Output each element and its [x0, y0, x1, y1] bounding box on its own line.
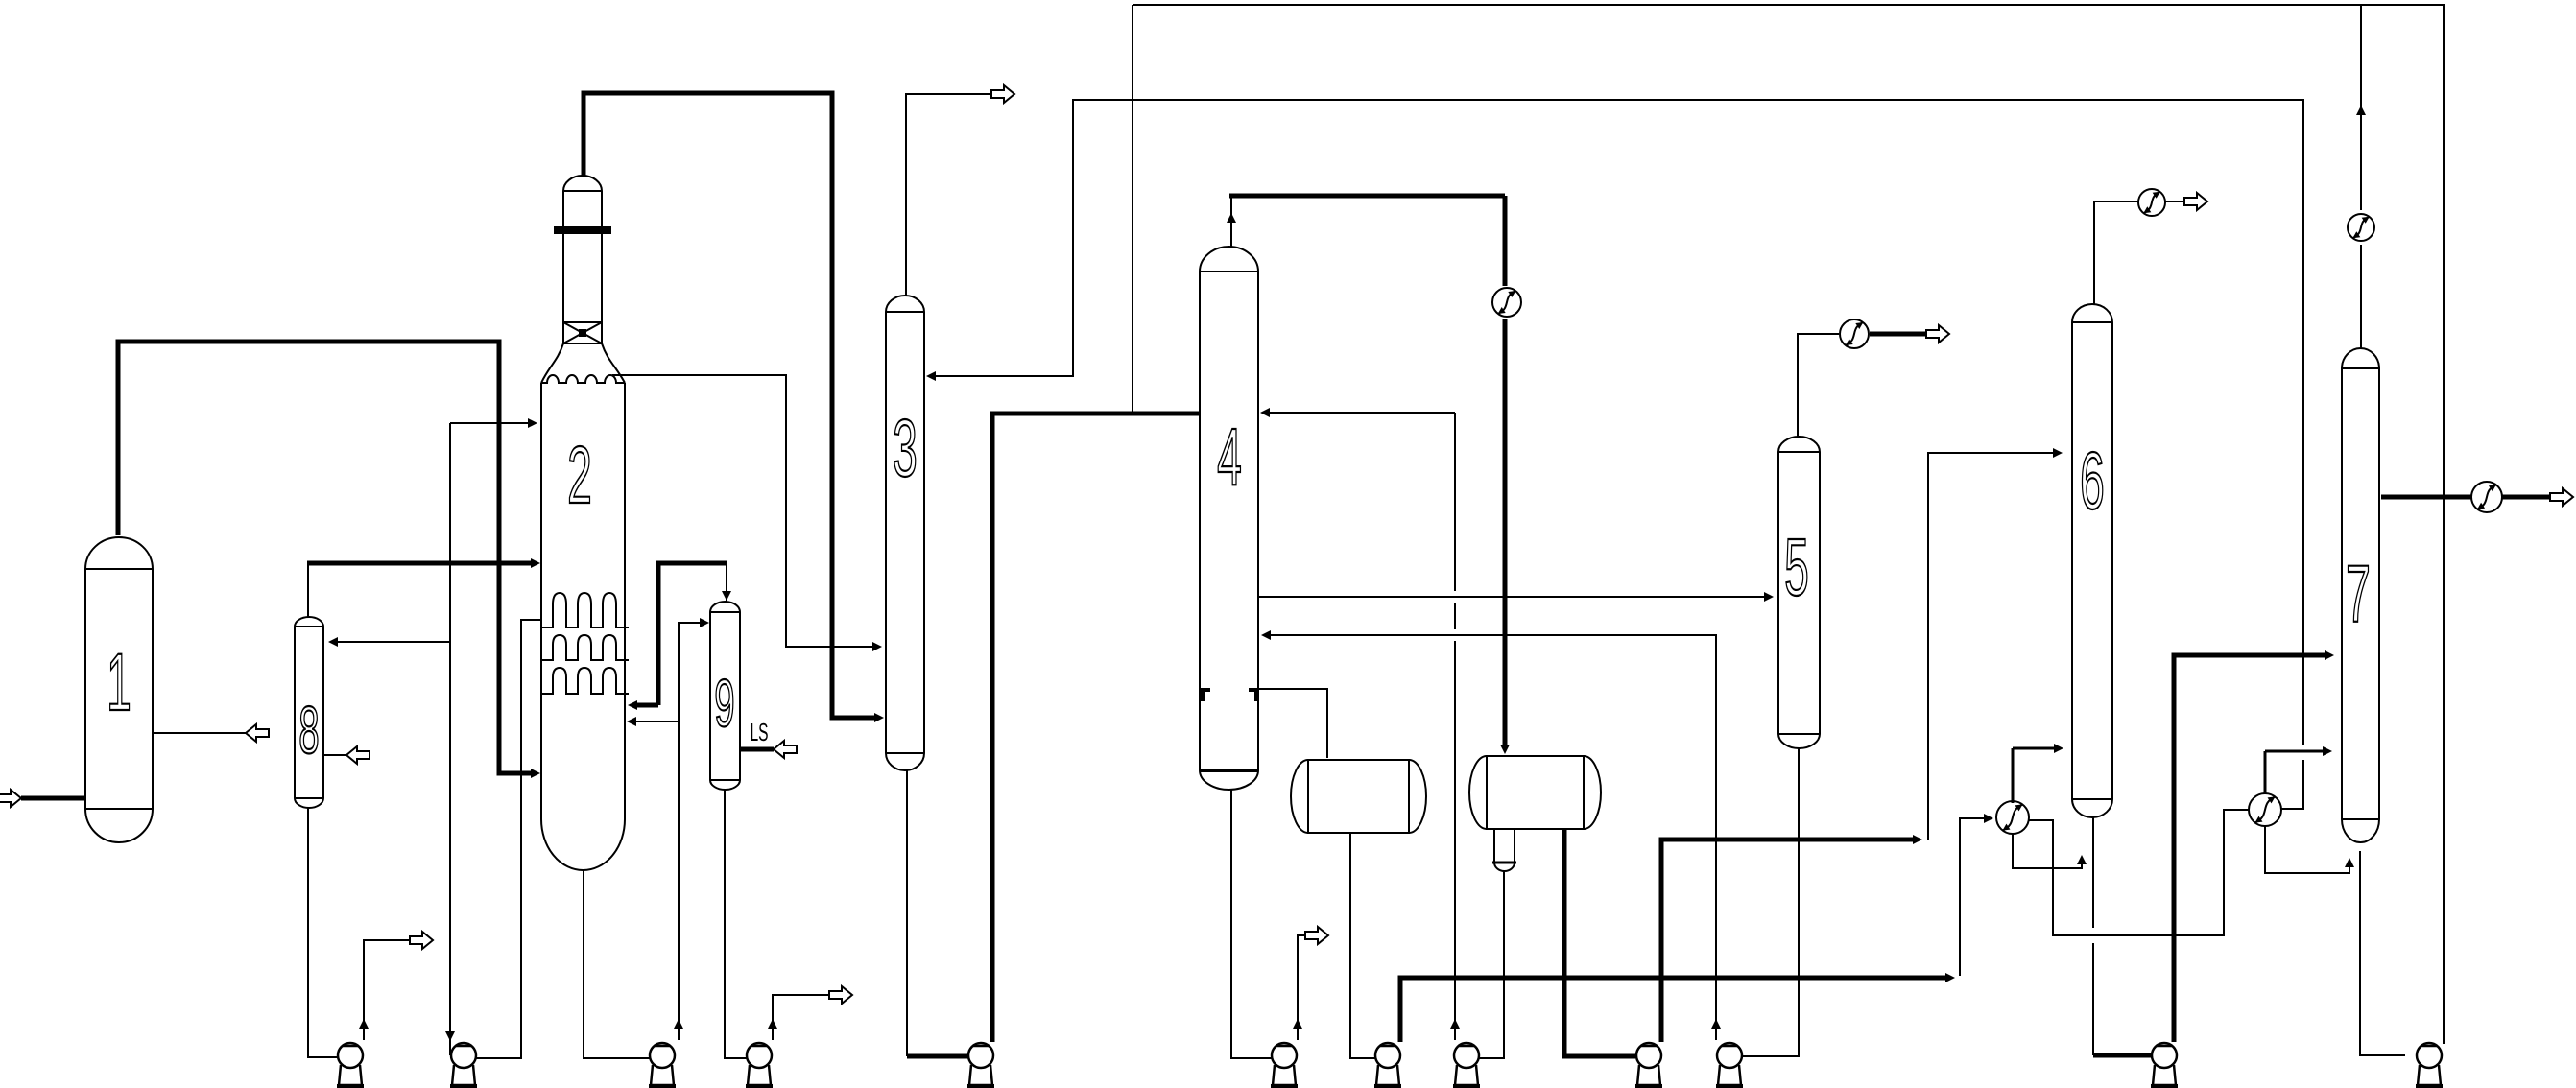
wire vessel 1 side outlet [152, 732, 246, 734]
vessel 2 internal coils [541, 593, 629, 627]
wire pump P8 discharge to vessel 4 right inlet [1267, 412, 1455, 414]
pump P11 [2152, 1043, 2177, 1068]
pump P3 [650, 1043, 675, 1068]
vessel 8 side inlet stub [323, 754, 346, 756]
vessel 5 column [1778, 437, 1820, 748]
wire reboiler E7 bottom return [2265, 825, 2349, 873]
feed inlet hollow arrow [0, 790, 21, 807]
wire vessel 3 vent to export [906, 94, 993, 296]
vessel 7 column [2342, 348, 2379, 842]
vessel 9 drum [710, 602, 740, 790]
vessel 4 chimney tray brackets [1203, 690, 1210, 701]
wire pump P10 discharge to vessel 4 inlet [1268, 635, 1716, 1040]
svg-text:3: 3 [893, 405, 918, 494]
wire vessel 2 sidedraw down to pump P2 with branch to vessel 8 [449, 423, 451, 1055]
svg-text:8: 8 [298, 693, 319, 768]
wire vessel 4 chimney tray draw to drum D1 [1258, 689, 1327, 758]
svg-text:4: 4 [1217, 414, 1242, 503]
wire vessel 5 bottoms to pump P10 [1743, 748, 1799, 1056]
wire vessel 8 bottoms to pump P1 [308, 808, 339, 1057]
svg-text:5: 5 [1784, 524, 1809, 613]
wire drum D2 bottoms to pump P9 [1564, 829, 1635, 1056]
wire vessel 3 bottoms to pump P5 [906, 770, 908, 1056]
wire vessel 2 right side to vessel 3 upper inlet [612, 375, 874, 647]
pump P12 [2417, 1043, 2442, 1068]
condenser E1 on vessel 4 overhead [1492, 288, 1521, 317]
condenser E2 on vessel 5 overhead [1840, 319, 1869, 348]
svg-text:1: 1 [107, 639, 131, 728]
pump P8 [1454, 1043, 1479, 1068]
vessel 2 mixer box [563, 322, 602, 343]
wire vessel 7 overhead to condenser E4 to top header [2360, 245, 2362, 348]
wire vessel 4 overhead to condenser E1 to drum D2 [1229, 194, 1505, 199]
pump P9 [1636, 1043, 1661, 1068]
wire pump P7 discharge to reboiler E6 feed [1400, 978, 1947, 1042]
wire reboiler E6 vapor return to vessel 6 [2012, 748, 2015, 803]
wire vessel 9 steam stub LS [740, 747, 774, 752]
svg-text:LS: LS [750, 719, 768, 746]
wire drum D1 bottoms to pump P7 [1350, 833, 1376, 1058]
wire vessel 2 overhead to vessel 3 feed [584, 93, 876, 718]
reboiler E7 [2249, 793, 2281, 826]
wire vessel 4 overhead riser [1230, 196, 1232, 247]
wire vessel 7 side outlet through cooler E5 to export [2381, 495, 2471, 500]
wire E7 reboiler return to vessel 3 via top header [2280, 760, 2303, 809]
wire pump P9 discharge to vessel 6 feed [1661, 840, 1915, 1042]
wire reboiler E6 outlet to reboiler E7 inlet [2028, 810, 2250, 935]
pump P10 [1717, 1043, 1742, 1068]
wire vessel 4 sidedraw to vessel 5 feed [1258, 596, 1766, 598]
condenser E3 on vessel 6 overhead [2138, 189, 2165, 216]
wire vessel 6 overhead to condenser E3 to export [2094, 201, 2138, 304]
pump P2 [451, 1043, 476, 1068]
vessel 2 upper neck and dome [563, 176, 602, 226]
vessel 3 column [886, 296, 924, 770]
svg-text:7: 7 [2346, 551, 2371, 640]
LS hollow arrow [774, 741, 797, 758]
vessel 8 side hollow arrow [346, 746, 370, 764]
cooler E5 on vessel 7 side stream [2471, 482, 2502, 512]
condenser E4 on vessel 7 overhead [2348, 214, 2374, 241]
svg-text:2: 2 [567, 432, 592, 521]
wire reboiler E7 vapor return to vessel 7 [2264, 751, 2267, 794]
svg-text:9: 9 [714, 666, 734, 741]
wire vessel 7 recycle junction to vessel 4 feed line [1132, 5, 1133, 412]
wire pump P11 discharge to vessel 7 feed [2174, 655, 2326, 1042]
vessel 2 flange [554, 226, 611, 234]
pump P6 [1272, 1043, 1297, 1068]
wire vessel 9 bottoms to pump P4 [725, 790, 748, 1058]
vessel 2 neck [562, 234, 564, 322]
wire top header from pump P12 discharge [1133, 5, 2444, 1044]
wire vessel 6 bottoms to pump P11 [2092, 817, 2094, 928]
wire feed to vessel 1 [21, 796, 86, 801]
wire pump P1 discharge to export [364, 940, 412, 1040]
pump P4 [747, 1043, 772, 1068]
vessel 4 bottom tray line [1200, 769, 1258, 772]
vessel 1 side outlet hollow arrow [246, 724, 269, 742]
wire pump P5 discharge to vessel 4 feed [992, 414, 1200, 1042]
wire pump P6 discharge to export [1298, 935, 1307, 1040]
vessel 6 column [2072, 304, 2112, 817]
reflux drum D1 [1308, 760, 1409, 833]
wire reboiler E6 bottom return [2013, 833, 2082, 868]
vessel 8 drum [295, 617, 323, 808]
reboiler E6 [1996, 801, 2029, 834]
pump P7 [1375, 1043, 1400, 1068]
pump P5 [968, 1043, 993, 1068]
wire pump P2 discharge to vessel 2 coils [476, 620, 541, 1058]
wire vessel 2 to vessel 9 top [658, 563, 727, 705]
wire vessel 7 bottoms to pump P12 [2360, 851, 2405, 1055]
wire drum D2 boot to pump P8 [1479, 871, 1504, 1058]
wire pump P3 discharge to vessel 9 and vessel 2 reflux [679, 623, 702, 1040]
wire vessel 8 overhead to vessel 2 [307, 563, 309, 617]
svg-text:6: 6 [2080, 438, 2105, 527]
reflux drum D2 with boot [1487, 756, 1584, 829]
wire vessel 4 bottoms to pump P6 [1231, 790, 1273, 1058]
pump P1 [338, 1043, 363, 1068]
vessel 2 column body with bell [541, 383, 625, 870]
vessel 4 column [1200, 247, 1258, 790]
wire vessel 1 overhead to vessel 2 inlet [118, 342, 534, 773]
vessel 1 column [85, 537, 153, 842]
wire vessel 5 overhead to condenser E2 to export [1798, 334, 1839, 437]
wire vessel 2 bottoms to pump P3 [584, 871, 651, 1058]
wire pump P4 discharge to export [773, 995, 831, 1040]
